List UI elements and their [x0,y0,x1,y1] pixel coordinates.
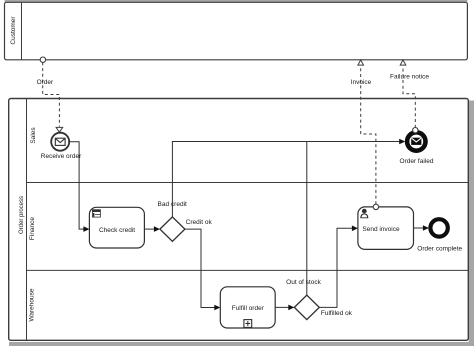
svg-text:Order: Order [37,79,54,86]
svg-text:Failure notice: Failure notice [390,74,429,81]
svg-text:Order complete: Order complete [417,246,462,253]
svg-text:Bad credit: Bad credit [158,201,187,208]
svg-text:Order failed: Order failed [400,158,434,165]
svg-text:Check credit: Check credit [99,227,135,234]
svg-text:Order process: Order process [19,196,25,234]
svg-text:Warehouse: Warehouse [29,288,36,321]
svg-text:Invoice: Invoice [351,79,372,86]
svg-text:Receive order: Receive order [41,153,82,160]
svg-text:Customer: Customer [10,16,17,45]
svg-text:Send invoice: Send invoice [362,226,400,233]
svg-text:Out of stock: Out of stock [286,279,321,286]
svg-text:Fulfill order: Fulfill order [232,305,265,312]
svg-text:Sales: Sales [30,127,37,144]
svg-text:Credit ok: Credit ok [186,219,213,226]
svg-text:Fulfilled ok: Fulfilled ok [321,310,353,317]
svg-text:Finance: Finance [29,217,36,241]
